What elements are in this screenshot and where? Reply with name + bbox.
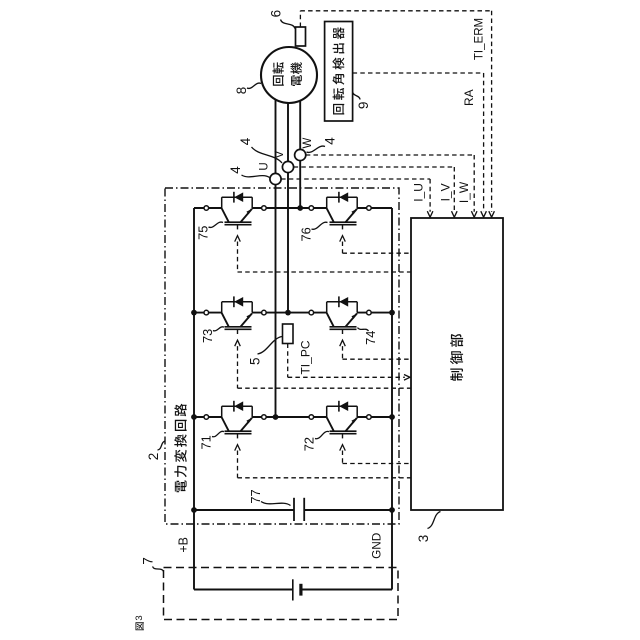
control unit label 制御部 [450,334,463,381]
svg-text:W: W [302,137,314,148]
temperature sensor 5 [283,324,294,344]
node W tap on row 1 [297,205,303,211]
node +B/row3 junction [191,414,197,420]
svg-text:8: 8 [234,87,249,95]
node V tap on row 2 [285,310,291,316]
svg-text:4: 4 [238,137,253,145]
svg-text:U: U [259,162,271,170]
wire GND bus (right vertical rail) [391,208,393,590]
wire phase leg row 1 (75/76) horizontal [194,207,222,209]
motor label 回転電機 [272,62,283,86]
svg-text:TI_ERM: TI_ERM [473,18,485,60]
transistor 76 (IGBT lower-arm, W leg) [327,208,334,222]
wire V phase line [287,103,289,313]
current sensor 4 (W) [295,149,306,160]
transistor 71 (IGBT upper-arm, U leg) [222,417,229,431]
detector label 回転角検出器 [333,27,345,114]
wire gate drive of 71 (dashed) [237,451,239,478]
svg-text:I_U: I_U [411,183,425,202]
battery cell (long plate) [292,579,294,600]
figure label 図3 [135,622,143,630]
rotation sensor 6 [296,27,306,46]
control unit 3 box [411,218,503,510]
label 電力変換回路 [174,404,186,493]
svg-text:72: 72 [302,437,317,451]
svg-text:TI_PC: TI_PC [298,340,312,374]
node GND/capacitor junction [389,507,395,513]
wire TI_ERM signal (dashed) [299,11,301,27]
wire gate drive of 73 (dashed) [237,346,239,388]
svg-text:GND: GND [370,533,384,559]
node GND/row3 junction [389,414,395,420]
wire I_U signal (dashed) [281,178,430,180]
wire gate drive of 74 (dashed) [342,346,344,359]
svg-text:V: V [274,150,286,158]
transistor 72 (IGBT lower-arm, U leg) [327,417,334,431]
current sensor 4 (V) [282,161,293,172]
svg-text:5: 5 [248,357,263,365]
svg-text:3: 3 [416,535,431,543]
wire +B bus (left vertical rail) [193,208,195,590]
battery cell (short thick plate) [299,584,302,596]
wire phase leg row 2 (73/74) horizontal [194,312,222,314]
svg-text:4: 4 [323,137,338,145]
wire gate drive of 75 (dashed) [237,242,239,273]
wire U phase line [275,100,277,417]
svg-text:I_V: I_V [439,183,453,201]
svg-text:9: 9 [356,102,371,110]
battery box 7 (dashed) [164,568,399,620]
transistor 74 (IGBT lower-arm, V leg) [327,313,334,327]
rotation angle detector 9 box [325,22,353,122]
transistor 73 (IGBT upper-arm, V leg) [222,313,229,327]
wire I_W signal (dashed) [306,154,474,156]
svg-text:+B: +B [176,537,190,553]
wire phase leg row 3 (71/72) horizontal [194,416,222,418]
motor 8 (rotating electric machine) [261,47,317,103]
svg-text:RA: RA [462,89,476,106]
svg-text:76: 76 [298,227,313,241]
wire TI_PC signal (dashed) [287,344,289,378]
svg-text:75: 75 [195,226,210,240]
svg-text:77: 77 [248,489,263,503]
node +B/row2 junction [191,310,197,316]
svg-text:7: 7 [141,557,156,565]
wire gate drive of 76 (dashed) [342,242,344,254]
node +B/capacitor junction [191,507,197,513]
svg-text:74: 74 [363,331,378,345]
wire RA signal (dashed) [353,72,484,74]
svg-text:3: 3 [134,615,145,620]
transistor 75 (IGBT upper-arm, W leg) [222,208,229,222]
power conversion circuit boundary (dash-dot box) 2 [165,188,399,524]
svg-text:I_W: I_W [457,181,471,203]
node U tap on row 3 [273,414,279,420]
wire battery loop [194,589,293,591]
wire W phase line [299,101,301,208]
wire I_V signal (dashed) [294,166,455,168]
svg-text:4: 4 [228,166,243,174]
wire capacitor rail [194,509,294,511]
svg-text:71: 71 [199,435,214,449]
capacitor 77 plates [293,498,295,521]
node GND/row2 junction [389,310,395,316]
svg-text:2: 2 [146,453,161,461]
current sensor 4 (U) [270,173,281,184]
svg-text:6: 6 [268,10,283,18]
wire gate drive of 72 (dashed) [342,451,344,464]
